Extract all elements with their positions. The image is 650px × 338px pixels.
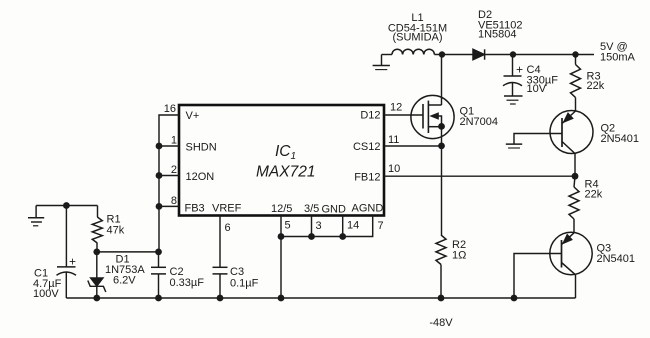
diode D2 bbox=[473, 49, 485, 59]
wire (ground to L1) bbox=[382, 54, 393, 56]
wire (Q2 base to ground) bbox=[514, 134, 562, 144]
svg-text:(SUMIDA): (SUMIDA) bbox=[392, 32, 442, 44]
node (R3 / 5V junction) bbox=[572, 51, 578, 57]
wire (pin 10 FB12 to Q2 collector node) bbox=[384, 175, 575, 177]
svg-text:6.2V: 6.2V bbox=[113, 275, 136, 287]
wire (pin 11 CS12 to source node) bbox=[384, 145, 442, 147]
svg-text:SHDN: SHDN bbox=[186, 142, 217, 154]
capacitor C3 bbox=[213, 267, 228, 298]
svg-text:1Ω: 1Ω bbox=[452, 250, 466, 262]
node (C4 junction) bbox=[510, 51, 516, 57]
node (pin 14 junction) bbox=[339, 233, 346, 240]
svg-text:10V: 10V bbox=[527, 83, 547, 95]
ground (input ground, top left) bbox=[28, 206, 44, 226]
wire (node line R1/D1 to bus/C2) bbox=[97, 251, 159, 253]
svg-text:CS12: CS12 bbox=[353, 141, 381, 153]
svg-text:+: + bbox=[516, 63, 523, 77]
transistor Q2 (PNP 2N5401) bbox=[550, 111, 593, 155]
transistor Q1 (N-MOSFET 2N7004) bbox=[411, 95, 454, 138]
svg-text:150mA: 150mA bbox=[600, 52, 636, 64]
svg-text:0.1µF: 0.1µF bbox=[230, 278, 259, 290]
wire (Q3 base loop to -48V rail) bbox=[514, 254, 562, 299]
svg-text:V+: V+ bbox=[186, 110, 200, 122]
transistor Q3 (PNP 2N5401) bbox=[550, 232, 592, 274]
svg-text:16: 16 bbox=[164, 103, 176, 115]
ground (input ground at L1) bbox=[373, 55, 390, 70]
node (R1 / D1 junction) bbox=[93, 249, 100, 256]
svg-text:12ON: 12ON bbox=[186, 171, 215, 183]
wire (pin 1 stub) bbox=[159, 145, 179, 147]
wire (Q1 source down to CS12 node) bbox=[441, 126, 443, 145]
svg-text:14: 14 bbox=[347, 220, 359, 232]
wire (pin 2 stub) bbox=[159, 175, 179, 177]
svg-text:11: 11 bbox=[388, 134, 399, 146]
wire (D2 cathode to 5V output, top rail) bbox=[485, 54, 594, 56]
svg-text:12: 12 bbox=[390, 102, 402, 114]
wire (Q2 collector to FB12 node) bbox=[574, 154, 576, 176]
node (Q1 body-source tie) bbox=[438, 123, 445, 130]
wire (pin 6 VREF stub down to C2 node level) bbox=[219, 216, 221, 268]
svg-text:3: 3 bbox=[316, 220, 322, 232]
svg-text:2: 2 bbox=[171, 164, 177, 176]
wire (Q3 collector to -48V rail) bbox=[575, 275, 577, 298]
svg-text:MAX721: MAX721 bbox=[256, 164, 315, 181]
zener diode D1 bbox=[88, 252, 106, 298]
svg-text:12/5: 12/5 bbox=[271, 203, 292, 215]
node (C2 / rail junction) bbox=[155, 295, 162, 302]
wire (L1 to D2 anode, top rail) bbox=[434, 54, 473, 56]
svg-text:GND: GND bbox=[322, 204, 347, 216]
node (pin 2 / bus) bbox=[156, 172, 163, 179]
svg-text:1N5804: 1N5804 bbox=[478, 29, 517, 41]
svg-text:47k: 47k bbox=[107, 225, 125, 237]
node (C3 / rail junction) bbox=[217, 295, 224, 302]
wire (pin 12 D12 to Q1 gate) bbox=[384, 114, 423, 116]
svg-text:10: 10 bbox=[388, 163, 400, 175]
svg-text:7: 7 bbox=[378, 220, 384, 232]
node (CS12 / source junction) bbox=[438, 143, 445, 150]
svg-text:0.33µF: 0.33µF bbox=[170, 277, 205, 289]
svg-text:6: 6 bbox=[225, 222, 231, 234]
wire (R3 to Q2 emitter) bbox=[575, 98, 577, 112]
node (pin 1 / bus) bbox=[156, 143, 163, 150]
wire (pin 3 stub) bbox=[311, 216, 313, 237]
svg-text:1: 1 bbox=[171, 135, 177, 147]
node (R2 / rail junction) bbox=[438, 295, 445, 302]
node (pin 3 junction) bbox=[308, 233, 315, 240]
wire (pin 14 stub) bbox=[342, 216, 344, 237]
node (ground net / rail junction) bbox=[278, 295, 285, 302]
node (pin 5 junction) bbox=[278, 233, 285, 240]
svg-text:8: 8 bbox=[171, 195, 177, 207]
node (bus / C2 junction) bbox=[155, 249, 162, 256]
svg-text:22k: 22k bbox=[587, 80, 605, 92]
wire (pin 7 AGND stub and bend) bbox=[281, 216, 373, 237]
wire (-48V bottom rail) bbox=[66, 297, 575, 299]
svg-text:AGND: AGND bbox=[352, 203, 384, 215]
svg-text:+: + bbox=[69, 255, 76, 269]
wire (Q1 drain to top rail) bbox=[441, 55, 443, 106]
svg-text:22k: 22k bbox=[585, 189, 603, 201]
wire (top-left rail: ground to R1) bbox=[36, 205, 97, 207]
svg-text:C3: C3 bbox=[230, 266, 244, 278]
svg-text:5: 5 bbox=[285, 220, 291, 232]
node (pin 8 / bus) bbox=[156, 203, 163, 210]
wire (pin 5 stub) bbox=[280, 216, 282, 237]
wire (R4 to Q3 emitter) bbox=[573, 219, 575, 233]
svg-text:2N7004: 2N7004 bbox=[460, 116, 499, 128]
wire (R1 to D1 node) bbox=[96, 243, 98, 252]
ground (C4 ground) bbox=[504, 96, 523, 104]
wire (pin 8 stub) bbox=[159, 205, 179, 207]
svg-text:2N5401: 2N5401 bbox=[601, 133, 640, 145]
svg-text:-48V: -48V bbox=[429, 317, 453, 329]
svg-text:100V: 100V bbox=[33, 288, 59, 300]
capacitor C2 bbox=[151, 252, 166, 298]
resistor R2 bbox=[436, 235, 446, 265]
node (Q3 base / rail junction) bbox=[511, 295, 518, 302]
resistor R3 bbox=[575, 55, 577, 65]
node (D1 / rail junction) bbox=[93, 295, 100, 302]
svg-text:VREF: VREF bbox=[212, 203, 242, 215]
capacitor C4 bbox=[503, 55, 522, 96]
svg-text:FB12: FB12 bbox=[354, 172, 380, 184]
node (L1 / Q1 drain junction) bbox=[439, 51, 445, 57]
resistor R4 bbox=[574, 176, 575, 187]
wire (source node down to R2) bbox=[441, 146, 443, 235]
node (C1 top junction) bbox=[63, 202, 70, 209]
inductor L1 bbox=[392, 49, 434, 54]
svg-text:2N5401: 2N5401 bbox=[597, 253, 636, 265]
node (Q2 collector / FB12 / R4 junction) bbox=[572, 173, 579, 180]
svg-text:3/5: 3/5 bbox=[304, 203, 319, 215]
wire (R2 to -48V rail) bbox=[440, 265, 442, 299]
IC U1 MAX721 box bbox=[179, 105, 384, 216]
capacitor C1 bbox=[57, 206, 77, 299]
svg-text:D12: D12 bbox=[360, 110, 380, 122]
wire (left bus: pin 16 stub and vertical) bbox=[159, 115, 179, 252]
wire (ground net down to -48V rail) bbox=[280, 237, 282, 299]
resistor R1 bbox=[97, 206, 99, 218]
svg-text:FB3: FB3 bbox=[185, 203, 205, 215]
ground (Q2 base ground) bbox=[506, 144, 522, 148]
